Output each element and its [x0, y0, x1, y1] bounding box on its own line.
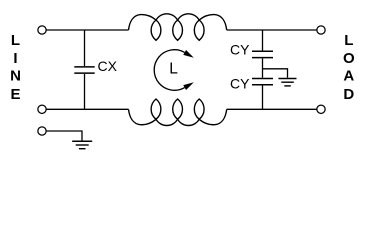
svg-text:E: E: [10, 86, 20, 103]
ground right: [279, 79, 297, 86]
capacitor CY top: [252, 30, 273, 78]
svg-text:I: I: [13, 50, 17, 67]
wire CY midpoint to ground: [263, 69, 288, 78]
capacitor CY bottom: [252, 79, 273, 110]
ground left: [72, 141, 92, 149]
terminal load output top: [317, 26, 325, 34]
svg-text:L: L: [11, 32, 20, 49]
node LOAD label: [343, 32, 355, 103]
node LINE label: [10, 32, 21, 103]
svg-text:N: N: [10, 68, 21, 85]
svg-text:O: O: [343, 50, 355, 67]
terminal line input bottom: [38, 105, 46, 113]
inductor winding top (common-mode choke): [129, 14, 227, 41]
svg-text:CY: CY: [230, 75, 250, 91]
terminal load output bottom: [317, 105, 325, 113]
wire top-right: [227, 29, 317, 31]
svg-text:CX: CX: [98, 58, 118, 74]
svg-text:L: L: [344, 32, 353, 49]
circular arrow core flux L: [154, 50, 194, 91]
inductor winding bottom (common-mode choke): [129, 99, 227, 126]
wire bottom-right: [227, 108, 317, 110]
svg-text:D: D: [343, 86, 354, 103]
wire bottom-left: [46, 108, 128, 110]
svg-text:A: A: [343, 68, 354, 85]
capacitor CX: [74, 30, 94, 109]
svg-text:CY: CY: [230, 42, 250, 58]
terminal chassis ground: [38, 127, 46, 135]
terminal line input top: [38, 26, 46, 34]
wire chassis terminal to ground: [46, 131, 82, 141]
wire top-left: [46, 29, 128, 31]
svg-text:L: L: [169, 61, 178, 78]
